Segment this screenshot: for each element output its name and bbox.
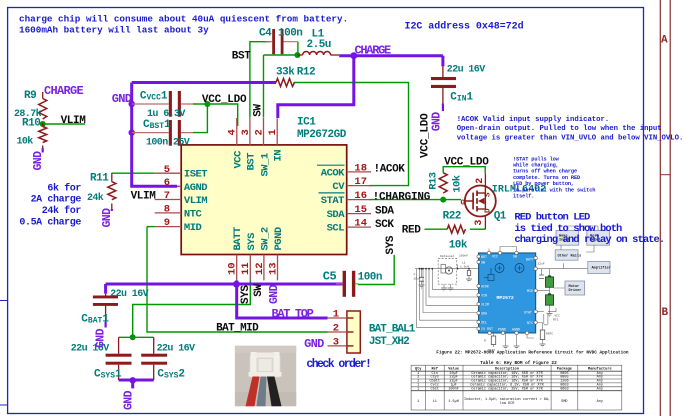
svg-text:SCL: SCL xyxy=(481,321,487,325)
svg-text:BST: BST xyxy=(245,153,257,171)
svg-text:PGND: PGND xyxy=(498,328,506,332)
svg-text:BST: BST xyxy=(481,255,487,259)
svg-text:Amplifier: Amplifier xyxy=(592,266,611,271)
svg-text:Open-drain output. Pulled to l: Open-drain output. Pulled to low when th… xyxy=(457,125,662,133)
svg-text:VCC: VCC xyxy=(492,255,498,259)
svg-text:R11: R11 xyxy=(90,173,109,185)
svg-text:SW: SW xyxy=(253,284,265,297)
svg-text:4: 4 xyxy=(227,129,239,135)
svg-text:24k: 24k xyxy=(87,192,104,204)
svg-text:11: 11 xyxy=(240,262,252,275)
svg-text:SDA: SDA xyxy=(481,312,487,316)
svg-text:14: 14 xyxy=(354,218,367,230)
svg-text:MP2672GD: MP2672GD xyxy=(297,129,347,141)
svg-text:VCC_LDO: VCC_LDO xyxy=(444,156,489,168)
svg-text:Other Rails: Other Rails xyxy=(558,253,582,258)
svg-text:1.5uH: 1.5uH xyxy=(460,265,469,268)
svg-text:GND: GND xyxy=(94,328,107,348)
svg-text:22u 16V: 22u 16V xyxy=(110,289,148,300)
svg-text:10k: 10k xyxy=(17,136,34,148)
svg-text:1: 1 xyxy=(417,387,419,391)
svg-text:L1: L1 xyxy=(433,400,437,404)
svg-text:Driver: Driver xyxy=(569,288,582,293)
svg-text:VLIM: VLIM xyxy=(131,190,157,202)
svg-text:BAT_TOP: BAT_TOP xyxy=(272,307,314,321)
svg-text:D: D xyxy=(485,208,493,213)
svg-text:IC1: IC1 xyxy=(297,116,316,128)
svg-text:2: 2 xyxy=(253,129,265,135)
svg-text:!ACOK Valid input supply indic: !ACOK Valid input supply indicator. xyxy=(457,116,610,124)
svg-text:24k for: 24k for xyxy=(42,205,82,217)
svg-text:5: 5 xyxy=(164,164,170,176)
svg-text:CHARGE: CHARGE xyxy=(355,44,392,58)
svg-text:SCL: SCL xyxy=(327,223,345,235)
svg-text:voltage is greater than VIN_UV: voltage is greater than VIN_UVLO and bel… xyxy=(457,134,684,142)
svg-text:charging and relay on state.: charging and relay on state. xyxy=(514,234,664,246)
svg-text:17: 17 xyxy=(354,176,367,188)
svg-text:LED by power button,: LED by power button, xyxy=(513,181,574,187)
svg-text:13: 13 xyxy=(267,262,279,275)
svg-text:MP2672: MP2672 xyxy=(497,295,514,301)
svg-text:turns off when charge: turns off when charge xyxy=(513,169,577,175)
svg-text:complete. Turns on RED: complete. Turns on RED xyxy=(513,175,580,181)
svg-text:check order!: check order! xyxy=(306,358,370,371)
svg-text:C5: C5 xyxy=(323,270,337,284)
svg-text:BST: BST xyxy=(232,51,251,63)
svg-text:3: 3 xyxy=(240,129,252,135)
svg-text:SDA: SDA xyxy=(375,206,394,218)
svg-text:charge chip will consume about: charge chip will consume about 40uA quie… xyxy=(19,13,348,24)
svg-text:Manufacture: Manufacture xyxy=(588,366,612,371)
svg-text:3: 3 xyxy=(474,220,485,226)
svg-text:ACOK: ACOK xyxy=(481,285,489,289)
svg-text:AGND: AGND xyxy=(184,182,207,194)
svg-text:ISET: ISET xyxy=(184,169,207,181)
svg-text:C: C xyxy=(414,273,416,276)
svg-text:RST: RST xyxy=(487,327,493,331)
svg-text:R13: R13 xyxy=(428,172,440,190)
svg-text:SYS: SYS xyxy=(246,233,258,251)
svg-text:1u 6.3V: 1u 6.3V xyxy=(147,109,185,120)
svg-text:PGND: PGND xyxy=(273,227,285,250)
svg-text:B: B xyxy=(662,307,669,319)
svg-text:GND: GND xyxy=(123,390,136,410)
svg-text:10k: 10k xyxy=(452,175,464,193)
svg-text:RED button LED: RED button LED xyxy=(514,212,590,224)
svg-text:R12: R12 xyxy=(297,67,315,79)
svg-text:9: 9 xyxy=(164,217,170,229)
svg-text:VLIM: VLIM xyxy=(481,303,489,307)
svg-text:GND: GND xyxy=(268,284,281,304)
svg-text:10: 10 xyxy=(227,262,239,275)
svg-text:Value: Value xyxy=(448,366,459,371)
svg-text:22u 16V: 22u 16V xyxy=(447,65,485,76)
svg-text:10uF: 10uF xyxy=(414,278,421,281)
svg-text:SW: SW xyxy=(252,104,264,117)
svg-text:Qty: Qty xyxy=(415,367,422,371)
svg-text:ACOK: ACOK xyxy=(321,167,345,179)
svg-text:10k: 10k xyxy=(449,239,468,251)
svg-text:STAT: STAT xyxy=(524,311,532,315)
svg-text:JST_XH2: JST_XH2 xyxy=(369,336,409,348)
svg-text:!STAT pulls low: !STAT pulls low xyxy=(513,156,560,162)
svg-text:1: 1 xyxy=(267,129,279,135)
svg-text:VLIM: VLIM xyxy=(61,115,87,127)
svg-text:NTC: NTC xyxy=(184,209,203,221)
svg-text:IN: IN xyxy=(273,150,285,162)
svg-text:GND: GND xyxy=(304,337,324,351)
svg-text:3: 3 xyxy=(333,337,339,349)
svg-text:100nF: 100nF xyxy=(448,387,459,391)
svg-text:100nF: 100nF xyxy=(459,255,468,258)
svg-text:BAT_BAL1: BAT_BAL1 xyxy=(369,323,416,335)
svg-text:0603: 0603 xyxy=(560,387,568,391)
svg-text:100n: 100n xyxy=(278,28,302,40)
svg-text:VLIM: VLIM xyxy=(184,195,207,207)
svg-text:CV: CV xyxy=(481,327,485,331)
svg-text:BATT: BATT xyxy=(526,258,534,262)
svg-text:2: 2 xyxy=(475,178,486,184)
svg-text:100n 25V: 100n 25V xyxy=(146,138,190,149)
svg-text:16: 16 xyxy=(354,190,367,202)
svg-text:6k for: 6k for xyxy=(47,183,81,195)
svg-text:R9: R9 xyxy=(24,90,36,102)
svg-text:Ref: Ref xyxy=(431,366,437,371)
svg-text:L1: L1 xyxy=(462,262,466,265)
svg-text:SYS: SYS xyxy=(240,285,252,304)
svg-text:MID: MID xyxy=(527,289,533,293)
svg-text:GND: GND xyxy=(32,151,45,171)
svg-text:GND: GND xyxy=(431,112,444,132)
svg-text:RT1: RT1 xyxy=(553,319,559,322)
svg-text:itself.: itself. xyxy=(513,194,534,200)
svg-text:A: A xyxy=(661,35,668,47)
svg-text:SYS: SYS xyxy=(385,235,397,254)
svg-text:while charging,: while charging, xyxy=(513,163,559,169)
svg-text:VCC: VCC xyxy=(555,315,561,318)
svg-text:22uF: 22uF xyxy=(538,263,545,266)
svg-text:VCC_LDO: VCC_LDO xyxy=(202,94,247,106)
svg-text:8: 8 xyxy=(164,204,170,216)
svg-text:GND: GND xyxy=(101,208,114,228)
svg-text:33k: 33k xyxy=(276,67,295,79)
svg-text:CHARGE: CHARGE xyxy=(44,84,84,98)
svg-text:7: 7 xyxy=(164,190,170,202)
svg-text:Any: Any xyxy=(597,387,603,391)
svg-text:BAT_MID: BAT_MID xyxy=(216,322,259,334)
svg-text:Ceramic capacitor, 25V, X5R or: Ceramic capacitor, 25V, X5R or X7R xyxy=(471,386,543,391)
svg-text:VIN: VIN xyxy=(481,294,487,298)
svg-text:Description: Description xyxy=(495,366,519,371)
svg-text:15: 15 xyxy=(354,204,367,216)
svg-text:Figure 22: MP2672-0000 Applica: Figure 22: MP2672-0000 Application Refer… xyxy=(436,350,629,355)
svg-text:!ACOK: !ACOK xyxy=(374,164,406,176)
svg-text:RED: RED xyxy=(402,225,421,237)
svg-text:2.5u: 2.5u xyxy=(307,39,331,51)
svg-text:6: 6 xyxy=(164,177,170,189)
svg-text:1.5µH: 1.5µH xyxy=(448,400,459,404)
svg-text:C4: C4 xyxy=(259,28,272,40)
svg-text:SMD: SMD xyxy=(561,400,567,404)
svg-text:R22: R22 xyxy=(443,210,461,222)
svg-text:SW_1: SW_1 xyxy=(259,153,271,176)
svg-text:!CHARGING: !CHARGING xyxy=(373,191,431,203)
svg-text:18: 18 xyxy=(354,163,367,175)
svg-text:low DCR: low DCR xyxy=(500,401,516,406)
svg-text:Cbst: Cbst xyxy=(430,386,438,391)
svg-text:28.7k: 28.7k xyxy=(14,108,42,120)
svg-text:1600mAh battery will last abou: 1600mAh battery will last about 3y xyxy=(19,24,209,35)
svg-text:G: G xyxy=(461,199,466,207)
svg-text:12: 12 xyxy=(254,262,266,275)
svg-text:SDA: SDA xyxy=(327,209,346,221)
svg-text:22u 16V: 22u 16V xyxy=(157,343,195,354)
svg-text:AGND: AGND xyxy=(512,328,520,332)
svg-text:Q1: Q1 xyxy=(494,210,507,222)
svg-text:STAT: STAT xyxy=(321,195,344,207)
svg-text:1: 1 xyxy=(417,400,419,404)
svg-text:NTC: NTC xyxy=(527,321,533,325)
svg-text:in parallel with the switch: in parallel with the switch xyxy=(513,187,595,193)
svg-text:SW_2: SW_2 xyxy=(260,227,272,250)
svg-text:VCC: VCC xyxy=(232,150,244,169)
svg-text:GND: GND xyxy=(112,92,132,106)
svg-text:2A charge: 2A charge xyxy=(31,194,82,206)
svg-text:Any: Any xyxy=(597,400,603,404)
svg-text:2: 2 xyxy=(333,323,339,335)
svg-text:CV: CV xyxy=(332,181,345,193)
svg-text:MID: MID xyxy=(184,222,202,234)
svg-text:1: 1 xyxy=(333,309,339,321)
svg-text:BATT: BATT xyxy=(232,227,244,250)
svg-text:Optional: Optional xyxy=(440,254,455,258)
svg-text:SW: SW xyxy=(513,255,517,259)
svg-text:RNTC: RNTC xyxy=(546,333,553,336)
svg-text:SW: SW xyxy=(481,261,485,265)
svg-text:I2C address 0x48=72d: I2C address 0x48=72d xyxy=(405,21,524,33)
svg-text:0.5A charge: 0.5A charge xyxy=(19,216,81,228)
svg-text:SCK: SCK xyxy=(375,219,394,231)
svg-text:is tied to show both: is tied to show both xyxy=(514,223,622,235)
svg-text:100n: 100n xyxy=(358,272,382,284)
svg-text:R: R xyxy=(484,340,486,343)
svg-text:Package: Package xyxy=(557,366,572,371)
